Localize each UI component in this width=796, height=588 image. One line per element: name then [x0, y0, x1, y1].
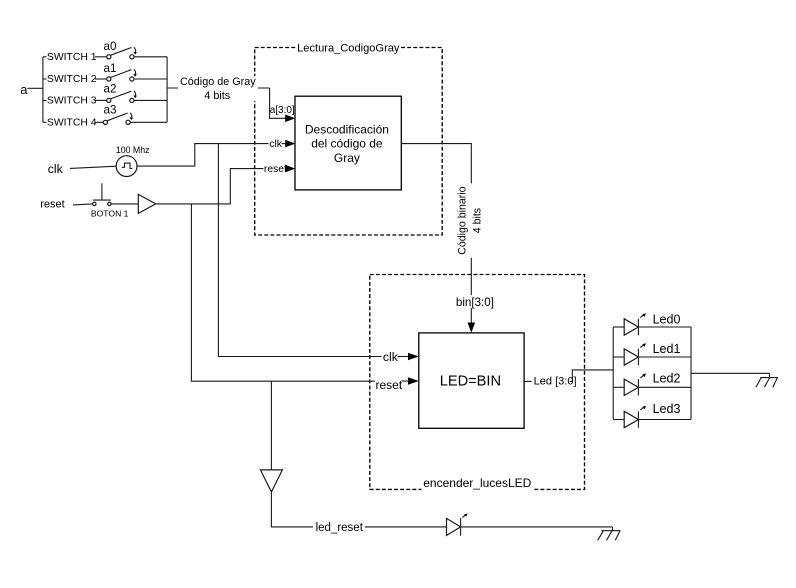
LED D3 Led2 [613, 374, 691, 396]
pin clk arrowhead block2 [398, 356, 410, 358]
svg-text:a2: a2 [104, 82, 117, 95]
svg-text:BOTON 1: BOTON 1 [91, 208, 129, 218]
wire Codigo binario net (block1 out to block2) [401, 144, 471, 184]
svg-text:LED=BIN: LED=BIN [440, 374, 501, 390]
svg-text:clk: clk [383, 350, 399, 364]
svg-text:Led [3:0]: Led [3:0] [534, 376, 577, 388]
svg-text:reset: reset [264, 164, 287, 175]
wire clk to oscillator [70, 166, 116, 168]
LED D4 Led3 [613, 406, 691, 428]
wire clk branch down to block2 [218, 144, 381, 357]
svg-text:clk: clk [269, 138, 283, 150]
svg-text:bin[3:0]: bin[3:0] [456, 296, 494, 309]
buffer U1 (reset buffer) [138, 194, 155, 213]
svg-text:4 bits: 4 bits [472, 208, 484, 233]
svg-text:SWITCH 1: SWITCH 1 [47, 52, 97, 63]
title encender_lucesLED [422, 479, 534, 493]
pin a[3:0] arrowhead [285, 115, 295, 123]
svg-text:del código de: del código de [311, 137, 383, 151]
title Lectura_CodigoGray [296, 43, 402, 54]
node Codigo de Gray 4 bits (net label) [178, 76, 258, 101]
svg-text:a0: a0 [104, 40, 117, 53]
pin clk arrowhead block1 [282, 143, 287, 145]
wire right switch bus [166, 57, 168, 123]
wire a to switch bus [28, 87, 43, 89]
block U3 Descodificacion del codigo de Gray [295, 96, 401, 190]
svg-text:Código de Gray: Código de Gray [180, 76, 256, 88]
wire button to buffer [111, 203, 138, 205]
svg-text:4 bits: 4 bits [204, 90, 230, 102]
wire clk net to block1 [137, 144, 269, 167]
switch SWITCH 3 [43, 91, 167, 107]
svg-text:100 Mhz: 100 Mhz [116, 145, 150, 155]
svg-text:encender_lucesLED: encender_lucesLED [423, 476, 531, 490]
svg-text:SWITCH 4: SWITCH 4 [47, 117, 97, 128]
ground GND2 (led_reset) [598, 527, 621, 540]
wire Codigo de Gray net [167, 87, 270, 89]
svg-text:reset: reset [40, 199, 64, 211]
switch SWITCH 2 [43, 69, 167, 85]
svg-text:Led3: Led3 [653, 402, 681, 416]
pin label Led [3:0] [532, 374, 570, 387]
wire Led[3:0] out to LED bank [524, 370, 613, 382]
node led_reset (net label) [313, 518, 365, 535]
svg-text:led_reset: led_reset [316, 522, 364, 534]
pushbutton BOTON 1 [93, 183, 112, 205]
ground GND1 (LED bank) [756, 373, 778, 387]
svg-text:Descodificación: Descodificación [305, 122, 389, 136]
svg-text:reset: reset [376, 378, 403, 392]
wire LED bank left bus [612, 327, 614, 420]
LED D2 Led1 [613, 343, 691, 365]
LED D1 Led0 [613, 313, 691, 335]
wire reset net to block1 [156, 169, 264, 204]
svg-text:Gray: Gray [334, 151, 360, 165]
container encender_lucesLED (dashed box) [370, 275, 585, 490]
wire left switch bus [42, 57, 44, 123]
svg-text:a1: a1 [104, 62, 117, 75]
oscillator 100 Mhz (clock source) [116, 156, 137, 177]
LED D5 (led_reset indicator) [447, 514, 468, 536]
pin bin[3:0] arrowhead [468, 323, 476, 333]
svg-text:a[3:0]: a[3:0] [270, 105, 295, 116]
svg-text:Led1: Led1 [653, 342, 681, 356]
node Codigo binario 4 bits (rotated net label) [456, 186, 483, 254]
wire LED bank right bus [690, 327, 692, 420]
svg-text:Led2: Led2 [653, 372, 681, 386]
svg-text:a: a [20, 82, 28, 97]
svg-text:SWITCH 2: SWITCH 2 [47, 74, 97, 85]
wire reset branch down to block2 [191, 204, 374, 381]
wire a[3:0] into block [270, 88, 286, 118]
wire reset to button [73, 204, 92, 205]
buffer U2 (led_reset buffer, pointing down) [260, 470, 282, 492]
svg-text:a3: a3 [104, 103, 117, 116]
wire led_reset net [271, 492, 612, 527]
svg-text:SWITCH 3: SWITCH 3 [47, 96, 97, 107]
pin label bin[3:0] [454, 295, 495, 308]
svg-text:clk: clk [48, 162, 64, 176]
pin reset arrowhead block1 [285, 165, 295, 173]
switch SWITCH 1 [43, 47, 167, 63]
pin reset arrowhead block2 [402, 380, 410, 382]
svg-text:Led0: Led0 [653, 313, 681, 327]
block U4 LED=BIN [419, 333, 524, 428]
container Lectura_CodigoGray (dashed box) [255, 48, 443, 236]
svg-text:Lectura_CodigoGray: Lectura_CodigoGray [297, 43, 400, 55]
switch SWITCH 4 [43, 113, 167, 129]
wire reset branch down to led_reset buffer [270, 381, 272, 470]
wire LED bank to ground [691, 372, 770, 374]
svg-text:Código binario: Código binario [456, 186, 468, 254]
